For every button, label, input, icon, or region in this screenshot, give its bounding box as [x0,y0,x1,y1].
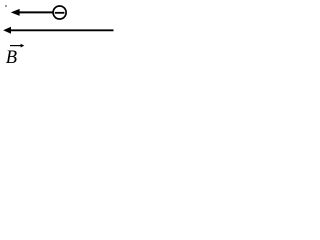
svg-text:B: B [6,48,17,68]
electron velocity arrow (pointing left) [11,9,53,16]
electron circle [53,6,66,19]
B-field arrow (pointing left) [3,27,113,34]
background [0,0,125,74]
label vector B [6,44,25,68]
minus sign [55,12,65,14]
stray dot [5,5,7,7]
